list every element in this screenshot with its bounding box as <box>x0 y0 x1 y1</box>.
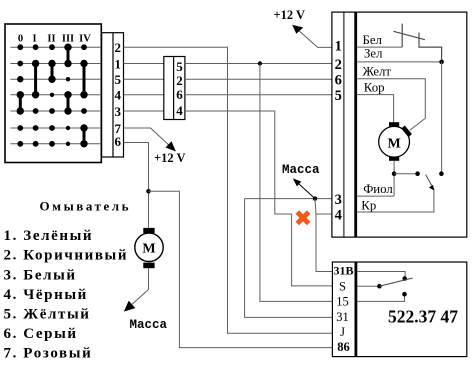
svg-text:7. Розовый: 7. Розовый <box>4 346 93 362</box>
wire unit pin4 stub <box>316 213 332 215</box>
wire pin5 row <box>124 78 164 80</box>
wire node to relay pin15 <box>260 64 333 302</box>
wire pin3 row to relay pin31 <box>245 199 333 318</box>
wire pin2 to J column <box>124 47 333 333</box>
node Zel <box>439 60 444 65</box>
X break mark <box>297 212 308 223</box>
arrowhead massa lower <box>124 301 136 312</box>
node motor minus <box>392 171 397 176</box>
wire pin3 row <box>124 110 164 112</box>
svg-text:Омыватель: Омыватель <box>40 199 132 214</box>
svg-text:Фиол: Фиол <box>363 182 393 196</box>
svg-text:5: 5 <box>335 88 342 104</box>
wire node massa to relay pin31B, with pin4 tee <box>315 199 332 272</box>
wire X2 to unit pin2 (with node) <box>185 63 332 65</box>
svg-text:2: 2 <box>115 40 122 55</box>
wire pin7 to +12V <box>124 128 172 148</box>
svg-text:6. Серый: 6. Серый <box>4 326 78 342</box>
relay contact 31B <box>357 272 405 279</box>
wire colours legend <box>4 228 129 362</box>
node massa <box>313 196 317 200</box>
svg-text:2: 2 <box>335 57 342 73</box>
svg-text:Кр: Кр <box>361 199 376 213</box>
wire motor to ground <box>131 268 149 305</box>
wire X2 to unit pin6 <box>185 78 332 80</box>
wire node to relay pin86 <box>149 191 333 347</box>
wire Zel node to contact <box>441 62 443 174</box>
svg-text:2. Коричнивый: 2. Коричнивый <box>4 248 129 264</box>
washer motor M1 <box>143 228 154 233</box>
relay pin labels <box>333 263 353 354</box>
svg-text:4: 4 <box>335 207 342 223</box>
svg-text:6: 6 <box>115 134 122 149</box>
svg-text:6: 6 <box>335 72 342 88</box>
svg-text:3: 3 <box>115 104 122 119</box>
svg-text:2: 2 <box>176 73 183 88</box>
svg-text:6: 6 <box>176 87 183 102</box>
svg-text:86: 86 <box>337 340 350 354</box>
connector X2 (pins 5 2 6 4) <box>164 57 185 120</box>
svg-text:Бел: Бел <box>363 33 383 47</box>
switch blade Kr <box>426 175 433 188</box>
relay contact 15 <box>357 294 404 301</box>
wire blade to Kr <box>357 191 434 212</box>
svg-text:М: М <box>142 242 155 257</box>
svg-text:Зел: Зел <box>364 47 383 61</box>
svg-text:15: 15 <box>336 294 349 308</box>
arrow massa upper <box>298 183 316 199</box>
relay thick divider <box>354 262 357 357</box>
contact dot right <box>439 171 444 176</box>
svg-text:I: I <box>32 34 36 45</box>
arrowhead +12V lower <box>166 141 176 151</box>
relay box 522.37 47 <box>332 262 466 357</box>
switch contact stub 1 <box>401 24 403 47</box>
svg-text:4: 4 <box>115 88 122 103</box>
svg-text:522.37 47: 522.37 47 <box>388 307 458 327</box>
svg-text:+12 V: +12 V <box>154 151 186 165</box>
unit pin strip line <box>343 12 345 237</box>
svg-text:Масса: Масса <box>282 163 320 177</box>
svg-text:1: 1 <box>115 56 122 71</box>
svg-text:4: 4 <box>176 103 183 118</box>
svg-text:4. Чёрный: 4. Чёрный <box>4 287 88 303</box>
wire pin4 row <box>124 94 164 96</box>
contact bars <box>20 47 84 144</box>
unit box (wiper unit) <box>332 12 467 237</box>
unit pin numbers <box>335 38 342 223</box>
svg-text:5: 5 <box>115 72 122 87</box>
svg-text:31B: 31B <box>333 263 353 277</box>
svg-text:Масса: Масса <box>130 318 168 332</box>
position labels 0 I II III IV <box>18 34 91 45</box>
wire X2 to relay pinS (via X break) <box>185 111 333 286</box>
wire motor minus to contacts <box>393 161 395 196</box>
wire X2 to unit pin5 <box>185 94 332 96</box>
svg-text:III: III <box>62 34 74 45</box>
svg-text:3. Белый: 3. Белый <box>4 267 77 283</box>
svg-text:5: 5 <box>176 59 183 74</box>
relay blade <box>379 278 412 286</box>
switch contact stub 2 <box>419 33 442 62</box>
svg-text:J: J <box>340 325 345 339</box>
connector X1 (pins 2 1 5 4 3 7 6) <box>102 33 124 157</box>
svg-text:II: II <box>47 34 55 45</box>
svg-text:1. Зелёный: 1. Зелёный <box>4 228 94 244</box>
relay contact S <box>357 285 379 287</box>
arrowhead +12V upper <box>292 25 303 34</box>
svg-text:М: М <box>387 136 400 151</box>
unit thick divider <box>354 12 357 237</box>
svg-text:31: 31 <box>336 310 349 324</box>
svg-text:0: 0 <box>18 34 23 45</box>
svg-text:3: 3 <box>335 192 342 208</box>
svg-text:5. Жёлтый: 5. Жёлтый <box>4 307 91 323</box>
switch box S1 (column stalk switch) <box>5 24 101 163</box>
svg-text:S: S <box>339 279 346 293</box>
wire +12V to unit pin1 <box>297 29 332 48</box>
svg-text:1: 1 <box>335 38 342 54</box>
contact dots <box>17 44 88 148</box>
contact dot left <box>415 171 420 176</box>
svg-text:Кор: Кор <box>364 81 385 95</box>
wire unit pin3 (massa node) <box>245 198 332 200</box>
node washer feed <box>146 189 151 194</box>
matrix row lines (7 rows) <box>10 47 101 144</box>
switch lever slash <box>393 31 425 39</box>
wire pin6 to washer motor <box>124 143 149 228</box>
node on pin2 wire <box>258 61 262 65</box>
wiper motor M2 <box>389 122 399 126</box>
wire node to left contact <box>394 173 418 175</box>
svg-text:+12 V: +12 V <box>274 8 306 22</box>
svg-text:Желт: Желт <box>363 65 392 79</box>
wire pin1 row <box>124 63 164 65</box>
svg-text:IV: IV <box>79 34 91 45</box>
